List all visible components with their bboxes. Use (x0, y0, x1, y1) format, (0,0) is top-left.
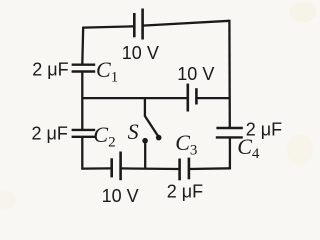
battery B2 (middle 10 V) (188, 84, 197, 112)
wire: top-right horizontal segment (143, 21, 230, 26)
svg-text:2 μF: 2 μF (32, 123, 68, 143)
capacitor C4 (216, 128, 243, 137)
battery B1 (top 10 V) (134, 9, 142, 40)
wire: switch branch lower segment (144, 143, 146, 170)
capacitor C1 (72, 65, 96, 72)
wire: bottom horizontal, right segment (189, 167, 231, 170)
svg-text:2 μF: 2 μF (32, 59, 68, 79)
wire: bottom horizontal, middle segment (121, 167, 180, 170)
svg-text:10 V: 10 V (102, 186, 139, 206)
wire: left vertical, middle segment (C1 to C2) (81, 72, 83, 130)
capacitor C2 (72, 130, 96, 137)
svg-text:10 V: 10 V (177, 64, 214, 84)
wire: top-left horizontal segment (83, 26, 135, 27)
svg-text:2 μF: 2 μF (167, 182, 203, 202)
wire: right vertical, top segment (top wire to C4) (228, 20, 231, 128)
wire: left vertical, top segment (top wire to C1) (81, 27, 84, 65)
capacitor C3 (180, 158, 189, 181)
wire: left vertical, bottom segment (C2 to bottom wire) (81, 137, 83, 170)
wire: switch branch upper stub (144, 98, 146, 117)
svg-text:10 V: 10 V (122, 43, 159, 63)
wire: middle horizontal, right segment (196, 97, 230, 99)
node: switch right contact (156, 135, 162, 141)
wire: bottom horizontal, left segment (82, 167, 111, 170)
wire: middle horizontal, left segment (82, 97, 187, 99)
svg-text:S: S (128, 119, 139, 144)
battery B3 (bottom 10 V) (112, 152, 121, 181)
wire: right vertical, bottom segment (C4 to bottom wire) (229, 137, 231, 169)
switch S arm (open) (145, 116, 158, 135)
node: switch left contact (142, 138, 148, 144)
